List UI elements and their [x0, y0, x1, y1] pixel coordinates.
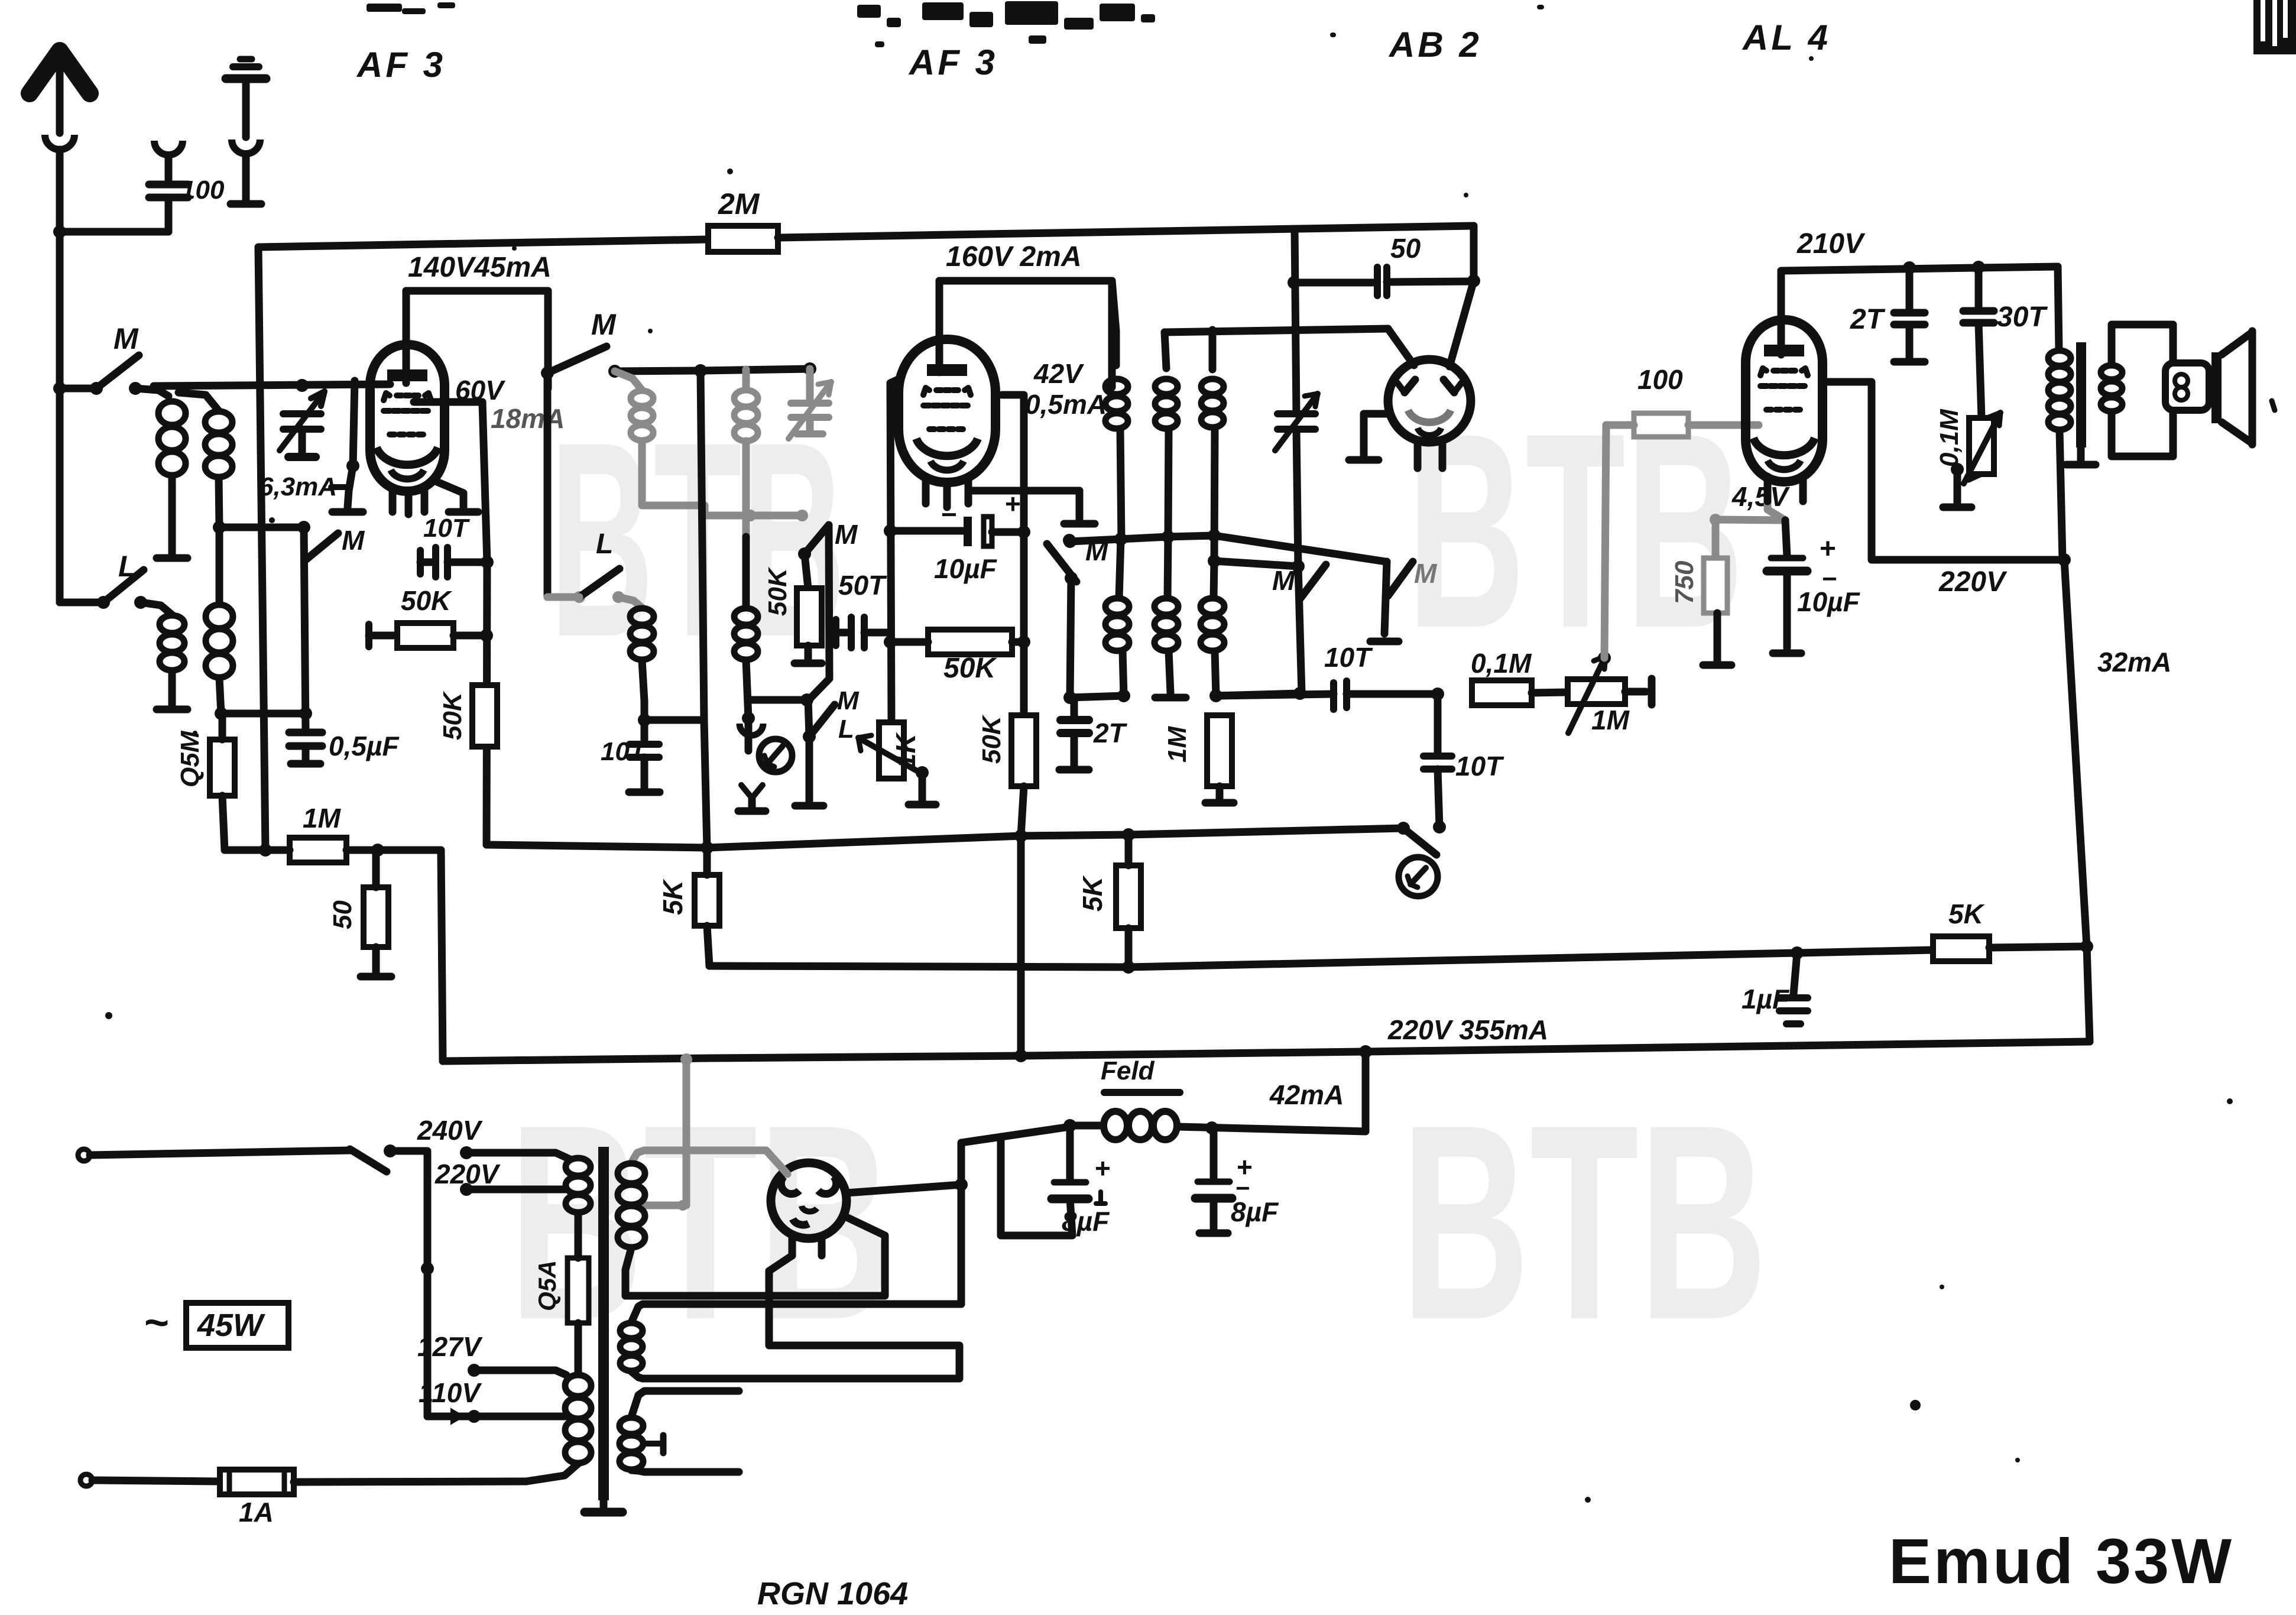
svg-text:M: M	[837, 686, 860, 715]
svg-text:50K: 50K	[401, 585, 452, 616]
svg-text:8µF: 8µF	[1231, 1196, 1279, 1227]
svg-text:18mA: 18mA	[491, 403, 565, 434]
svg-text:M: M	[835, 519, 858, 550]
svg-text:10T: 10T	[1455, 751, 1504, 781]
svg-text:L: L	[596, 528, 613, 560]
svg-text:50: 50	[1390, 233, 1421, 264]
svg-text:M: M	[1414, 558, 1438, 589]
svg-text:AF 3: AF 3	[908, 43, 998, 82]
svg-text:Emud 33W: Emud 33W	[1889, 1525, 2234, 1597]
svg-text:240V: 240V	[417, 1115, 483, 1146]
svg-text:4,5V: 4,5V	[1731, 481, 1790, 512]
svg-text:10µF: 10µF	[934, 553, 998, 584]
svg-text:220V: 220V	[1938, 566, 2008, 598]
svg-text:Q5M: Q5M	[176, 730, 205, 787]
svg-text:0,1M: 0,1M	[1935, 408, 1964, 467]
svg-text:50K: 50K	[977, 714, 1006, 764]
svg-text:BTB: BTB	[1401, 1067, 1768, 1377]
svg-text:45W: 45W	[197, 1308, 265, 1343]
svg-text:32mA: 32mA	[2097, 647, 2171, 677]
svg-text:50: 50	[328, 900, 357, 929]
svg-text:Feld: Feld	[1101, 1056, 1155, 1085]
svg-text:0,5mA: 0,5mA	[1025, 389, 1107, 420]
svg-text:50K: 50K	[763, 566, 792, 616]
svg-text:100: 100	[181, 176, 225, 205]
svg-text:2T: 2T	[1850, 304, 1886, 335]
svg-text:160V 2mA: 160V 2mA	[946, 241, 1081, 273]
svg-text:750: 750	[1670, 560, 1699, 604]
svg-text:100: 100	[1637, 364, 1683, 395]
svg-text:1M: 1M	[1163, 726, 1192, 763]
svg-text:30T: 30T	[1997, 301, 2048, 333]
svg-text:1K: 1K	[890, 732, 921, 768]
svg-text:50K: 50K	[438, 690, 467, 740]
svg-text:AF 3: AF 3	[356, 45, 446, 85]
svg-text:220V 355mA: 220V 355mA	[1387, 1014, 1548, 1045]
svg-text:RGN 1064: RGN 1064	[757, 1576, 908, 1611]
svg-text:M: M	[342, 525, 365, 556]
svg-text:5K: 5K	[657, 878, 688, 915]
svg-text:AL 4: AL 4	[1742, 18, 1831, 57]
svg-text:1M: 1M	[303, 803, 342, 834]
svg-text:220V: 220V	[434, 1159, 501, 1189]
svg-text:5K: 5K	[1077, 875, 1108, 912]
svg-text:10T: 10T	[1324, 642, 1373, 673]
svg-text:10µF: 10µF	[1797, 586, 1861, 617]
svg-text:42mA: 42mA	[1269, 1079, 1344, 1110]
svg-text:M: M	[113, 322, 139, 355]
svg-text:M: M	[1272, 565, 1296, 596]
svg-text:50T: 50T	[838, 570, 887, 601]
svg-text:50K: 50K	[943, 653, 997, 684]
svg-text:6,3mA: 6,3mA	[259, 472, 337, 501]
svg-text:+: +	[1095, 1153, 1111, 1183]
svg-text:+: +	[1820, 533, 1836, 565]
svg-text:0,1M: 0,1M	[1471, 648, 1532, 679]
svg-text:10T: 10T	[423, 514, 470, 543]
svg-text:~: ~	[144, 1299, 169, 1347]
svg-text:2M: 2M	[718, 187, 760, 220]
svg-text:Q5A: Q5A	[533, 1260, 562, 1311]
svg-text:M: M	[1085, 536, 1109, 566]
svg-text:5K: 5K	[1948, 899, 1985, 929]
svg-text:0,5µF: 0,5µF	[329, 731, 400, 761]
svg-text:10T: 10T	[601, 737, 647, 766]
svg-text:140V45mA: 140V45mA	[408, 252, 552, 283]
svg-text:1M: 1M	[1591, 705, 1630, 735]
svg-text:42V: 42V	[1033, 358, 1084, 389]
svg-text:L: L	[838, 715, 854, 744]
svg-text:1A: 1A	[239, 1497, 274, 1528]
svg-text:AB 2: AB 2	[1388, 25, 1482, 64]
svg-text:M: M	[591, 308, 617, 341]
svg-text:210V: 210V	[1796, 228, 1866, 260]
svg-text:2T: 2T	[1093, 718, 1128, 748]
